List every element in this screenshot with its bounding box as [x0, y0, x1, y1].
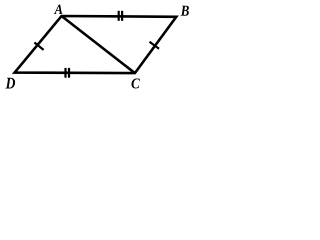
double tick on DC	[66, 68, 70, 78]
label C	[132, 78, 140, 88]
label A	[54, 5, 63, 14]
double tick on AB	[119, 11, 122, 21]
geometry figure: parallelogram ABCD with diagonal AC	[0, 0, 193, 94]
single tick on BC	[150, 42, 160, 49]
diagonal AC	[62, 16, 135, 73]
label B	[181, 6, 189, 16]
parallelogram outline A-B-C-D	[15, 16, 177, 73]
label D	[6, 78, 16, 89]
single tick on AD	[34, 43, 43, 50]
